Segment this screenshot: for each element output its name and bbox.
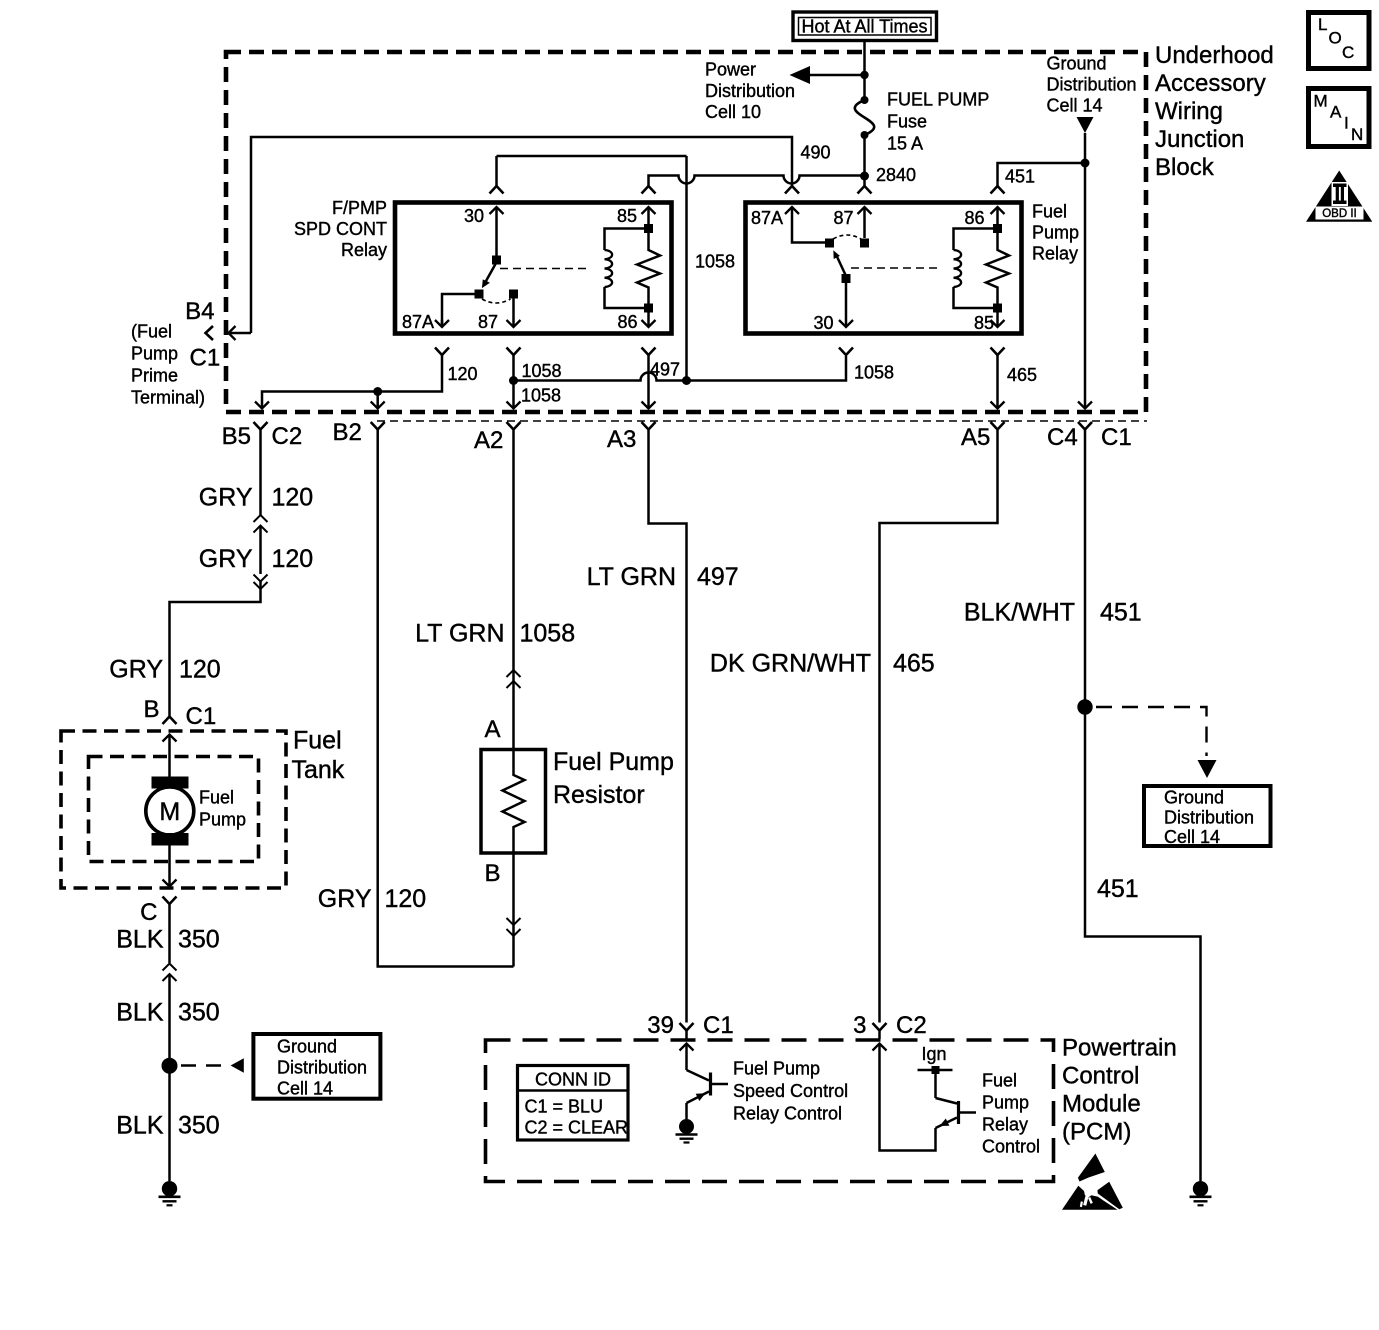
label: FUEL PUMP Fuse 15 A (887, 90, 989, 154)
relay K1 coil resistor (zigzag) (637, 233, 660, 305)
svg-text:Relay Control: Relay Control (733, 1104, 842, 1124)
module: Powertrain Control Module (PCM) dashed box (486, 1040, 1054, 1182)
transistor Q2: fuel pump relay driver (936, 1070, 977, 1128)
svg-text:Terminal): Terminal) (131, 388, 205, 408)
svg-text:497: 497 (650, 360, 680, 380)
svg-text:B2: B2 (333, 419, 362, 446)
svg-text:465: 465 (1007, 365, 1037, 385)
wire 350: middle segment (168, 974, 171, 1181)
svg-text:497: 497 (697, 563, 739, 591)
svg-text:N: N (1351, 125, 1363, 144)
wire: arrow to Power Distribution Cell 10 (790, 66, 865, 84)
label: Fuel Pump (motor) (199, 788, 246, 830)
svg-text:Fuse: Fuse (887, 112, 927, 132)
relay K2 coil resistor (zigzag) (986, 233, 1009, 305)
svg-text:Control: Control (982, 1137, 1040, 1157)
relay K2 pin 87 (top) (833, 207, 871, 238)
svg-text:B5: B5 (222, 423, 251, 450)
svg-text:LT GRN: LT GRN (587, 563, 676, 591)
svg-text:B4: B4 (185, 298, 214, 325)
terminal A3 fork (642, 422, 656, 430)
svg-text:3: 3 (853, 1012, 866, 1039)
svg-text:C4: C4 (1047, 424, 1078, 451)
node 2840: junction dot (860, 172, 869, 181)
relay K2 dashed actuation line to coil (851, 267, 937, 269)
svg-text:1058: 1058 (521, 386, 561, 406)
wire 451: junction block vertical to C4/C1 exit (1084, 163, 1087, 402)
label: Power Distribution Cell 10 (705, 60, 795, 123)
wire 490: node 2840 to relay K1 pin 85 with crossover hops (649, 176, 865, 187)
svg-text:GRY: GRY (199, 545, 253, 573)
svg-text:C: C (1342, 43, 1354, 62)
terminal B4: female fork (prime terminal) (206, 326, 214, 340)
label: LT GRN 497 (587, 563, 739, 591)
terminal B5/C2 fork (254, 422, 268, 430)
terminal B2 fork (371, 422, 385, 430)
svg-text:A: A (484, 716, 500, 743)
motor M1: fuel pump motor (146, 777, 194, 846)
ground G1: chassis ground at end of BLK 350 (159, 1181, 181, 1205)
svg-text:2840: 2840 (876, 165, 916, 185)
relay K1 switch arm (movable contact arrow) (482, 264, 496, 288)
relay K1 coil bottom node (square) (644, 304, 653, 313)
svg-text:Fuel: Fuel (293, 727, 342, 755)
svg-text:Relay: Relay (982, 1115, 1028, 1135)
svg-text:465: 465 (893, 650, 935, 678)
dashed reference line to Ground Distribution Cell 14 (right) (1096, 707, 1207, 756)
svg-text:(PCM): (PCM) (1062, 1119, 1131, 1146)
svg-text:1058: 1058 (520, 620, 576, 648)
relay K1 pin 30 (top) (464, 206, 504, 256)
wire 1058: relay K1 pin 30 top feed (497, 155, 687, 158)
svg-text:87: 87 (478, 312, 498, 332)
svg-text:85: 85 (974, 313, 994, 333)
svg-text:Accessory: Accessory (1155, 70, 1266, 97)
svg-text:Distribution: Distribution (277, 1058, 367, 1078)
svg-text:120: 120 (385, 885, 427, 913)
wire 451: branch to relay K2 pin 86 (998, 163, 1086, 186)
relay K1 dashed arc between contacts 87A and 87 (482, 299, 511, 303)
svg-text:Junction: Junction (1155, 126, 1244, 153)
svg-text:Pump: Pump (1032, 223, 1079, 243)
wire 1058: horizontal run from A2 to relay K2 pin 30 with hop over 497 (514, 356, 847, 381)
wire: B4 fuel pump prime feed (long top wire) (251, 137, 792, 333)
ground G2: chassis ground at end of 451 (1190, 1181, 1212, 1205)
svg-text:87A: 87A (402, 312, 434, 332)
wire: motor to tank bottom, arrow down (163, 846, 177, 887)
pin 86 connector fork at relay K2 (991, 186, 1005, 194)
relay K2 coil (inductor, parallel with resistor) (954, 229, 998, 309)
svg-text:120: 120 (179, 656, 221, 684)
svg-text:C2: C2 (896, 1012, 927, 1039)
relay K1 pin 86 (bottom) (617, 312, 655, 332)
wire: battery feed from Hot At All Times into junction block (863, 41, 866, 101)
relay K2 pin 85 (bottom) (974, 312, 1005, 333)
svg-text:86: 86 (617, 312, 637, 332)
relay K2 switch arm (movable contact arrow) (833, 250, 846, 276)
svg-text:Ign: Ign (921, 1044, 946, 1064)
svg-text:451: 451 (1005, 167, 1035, 187)
wire 497: relay K1 pin 86 to A3 exit (642, 348, 656, 409)
label box: Ground Distribution Cell 14 (right) (1144, 786, 1271, 847)
ground G3: PCM internal ground (Q1 emitter) (676, 1119, 698, 1143)
svg-text:490: 490 (801, 143, 831, 163)
label: Fuel Tank (292, 727, 345, 785)
svg-text:Cell 14: Cell 14 (1164, 827, 1220, 847)
wire 120: relay K1 pin 87A to exits B5 and B2 (255, 348, 449, 409)
node: junction dot to Power Distribution (860, 71, 868, 79)
wire 451: C1 exit down junction (1085, 430, 1201, 1182)
label: F/PMP SPD CONT Relay (294, 198, 387, 260)
svg-text:C: C (140, 899, 157, 926)
label: (Fuel Pump Prime Terminal) (131, 322, 205, 408)
node: ground-reference junction dot on BLK 350 (162, 1058, 178, 1074)
svg-text:DK GRN/WHT: DK GRN/WHT (710, 650, 871, 678)
wire: fuse to node 2840 (863, 135, 866, 186)
in-line connector chevrons (up) on LT GRN 1058 (507, 670, 521, 688)
wire 1058: A2 exit down to fuel pump resistor (512, 430, 515, 767)
svg-text:Powertrain: Powertrain (1062, 1035, 1177, 1062)
svg-text:I: I (1344, 114, 1349, 133)
in-line connector chevrons (up) on BLK 350 (163, 964, 177, 982)
svg-text:Fuel Pump: Fuel Pump (553, 748, 674, 776)
ESD sensitive device symbol (PCM) (1062, 1154, 1123, 1210)
svg-text:Ground: Ground (277, 1037, 337, 1057)
wire: PCM pin 3 entry arrow and loop to Q2 emitter (873, 1044, 936, 1151)
dashed reference arrow to Ground Distribution Cell 14 (left) (181, 1058, 244, 1073)
svg-text:C1: C1 (190, 345, 221, 372)
terminal B fork at fuel tank (163, 717, 177, 725)
relay K2 coil top node (square) (993, 224, 1002, 233)
wire 120: B5/C2 down to in-line connector (259, 430, 262, 516)
icon: OBD II triangle (1306, 171, 1372, 222)
ground reference triangle (right, Cell 14) (1198, 760, 1217, 778)
label: Fuel Pump Resistor (553, 748, 674, 809)
svg-text:Fuel: Fuel (982, 1071, 1017, 1091)
label: DK GRN/WHT 465 (710, 650, 935, 678)
label: Fuel Pump Speed Control Relay Control (733, 1059, 848, 1124)
svg-text:Resistor: Resistor (553, 781, 645, 809)
relay K1 pin 87 (bottom) (478, 290, 521, 333)
relay K1 coil top node (square) (644, 224, 653, 233)
label: GRY 120 (second) (199, 545, 313, 573)
resistor R1 element (zigzag) (503, 766, 525, 853)
svg-text:Relay: Relay (1032, 244, 1078, 264)
svg-text:LT GRN: LT GRN (415, 620, 504, 648)
relay K2 pin 87A (top) (751, 207, 825, 243)
svg-text:30: 30 (464, 206, 484, 226)
svg-text:120: 120 (272, 484, 314, 512)
svg-text:451: 451 (1100, 599, 1142, 627)
svg-text:SPD CONT: SPD CONT (294, 219, 387, 239)
icon: MAIN box (1309, 89, 1370, 147)
svg-text:Speed Control: Speed Control (733, 1081, 848, 1101)
label: Underhood Accessory Wiring Junction Block (1155, 42, 1274, 181)
label: BLK 350 (second) (116, 999, 219, 1027)
svg-text:(Fuel: (Fuel (131, 322, 172, 342)
relay K2 pin 86 (top) (964, 207, 1004, 228)
in-line connector chevrons (down) on resistor output (507, 918, 521, 936)
svg-text:86: 86 (964, 208, 984, 228)
wire 120: B2 exit down and over to fuel pump resistor output (378, 430, 514, 967)
svg-text:451: 451 (1097, 875, 1139, 903)
svg-text:C1: C1 (1101, 424, 1132, 451)
terminal B4: arrow into junction block (Fuel Pump Prime Terminal) (229, 326, 252, 340)
label: BLK 350 (third) (116, 1112, 219, 1140)
svg-text:Cell 14: Cell 14 (277, 1079, 333, 1099)
svg-text:A5: A5 (961, 424, 990, 451)
svg-text:A2: A2 (474, 427, 503, 454)
pin 87 connector fork at relay K2 (node 2840) (858, 186, 872, 194)
fuel tank inner dashed box (fuel pump module) (89, 757, 259, 862)
label: Fuel Pump Relay (1032, 202, 1079, 264)
svg-text:87A: 87A (751, 208, 783, 228)
label: BLK/WHT 451 (964, 599, 1142, 627)
svg-text:350: 350 (178, 926, 220, 954)
relay K1 switch common contact (square) (492, 256, 501, 265)
svg-text:120: 120 (272, 545, 314, 573)
svg-text:Cell 10: Cell 10 (705, 102, 761, 122)
wire: tank terminal arrow up into connector B (163, 735, 177, 777)
label: Fuel Pump Relay Control (982, 1071, 1040, 1157)
svg-text:Distribution: Distribution (1164, 808, 1254, 828)
node: 451 ground-reference junction dot (1077, 699, 1092, 714)
svg-text:BLK: BLK (116, 999, 164, 1027)
svg-text:GRY: GRY (109, 656, 163, 684)
svg-text:87: 87 (833, 208, 853, 228)
svg-text:Distribution: Distribution (1047, 75, 1137, 95)
svg-text:1058: 1058 (854, 363, 894, 383)
svg-text:BLK: BLK (116, 926, 164, 954)
wire 497: A3 exit down to PCM pin 39 (649, 430, 687, 1023)
svg-text:Prime: Prime (131, 366, 178, 386)
svg-text:120: 120 (448, 364, 478, 384)
svg-text:C1 = BLU: C1 = BLU (525, 1097, 604, 1117)
svg-text:85: 85 (617, 206, 637, 226)
wire 120: jog left down to fuel tank connector B (170, 582, 261, 717)
svg-text:C1: C1 (703, 1012, 734, 1039)
svg-text:1058: 1058 (522, 361, 562, 381)
wire 1058: vertical drop right of relay K1 (685, 156, 688, 381)
label: Powertrain Control Module (PCM) (1062, 1035, 1177, 1146)
resistor R1: Fuel Pump Resistor box (481, 750, 546, 854)
svg-text:39: 39 (647, 1012, 674, 1039)
svg-text:Ground: Ground (1164, 788, 1224, 808)
svg-text:350: 350 (178, 1112, 220, 1140)
terminal A5 fork (991, 422, 1005, 430)
svg-text:Relay: Relay (341, 240, 387, 260)
relay K1 pin 85 (top) (617, 206, 656, 226)
label: GRY 120 (B2 branch) (318, 885, 426, 913)
svg-text:FUEL PUMP: FUEL PUMP (887, 90, 989, 110)
wire 451: ground triangle down to node (1084, 133, 1087, 163)
pin 30 connector fork at relay K1 (490, 156, 504, 194)
svg-text:CONN ID: CONN ID (535, 1070, 611, 1090)
connector face dashed line (C2/A/C1 row) (377, 420, 1147, 422)
svg-text:Underhood: Underhood (1155, 42, 1274, 69)
svg-text:L: L (1318, 15, 1327, 34)
relay K1 coil (inductor, parallel with resistor) (605, 229, 649, 309)
svg-text:A3: A3 (607, 426, 636, 453)
svg-text:BLK: BLK (116, 1112, 164, 1140)
terminal C4/C1 fork (1078, 422, 1092, 430)
svg-text:C2 = CLEAR: C2 = CLEAR (525, 1118, 629, 1138)
junction block: Underhood Accessory Wiring Junction Block dashed border (226, 52, 1146, 412)
ground reference triangle (top, Cell 14) (1077, 117, 1094, 133)
icon: LOC box (1309, 13, 1370, 69)
svg-text:Pump: Pump (131, 344, 178, 364)
svg-text:Fuel: Fuel (1032, 202, 1067, 222)
node: 1058 junction dot at A2 (509, 376, 518, 385)
relay K2 switch common contact (square) (842, 274, 851, 283)
svg-text:B: B (143, 696, 159, 723)
terminal C fork below fuel tank (163, 897, 177, 964)
svg-text:Power: Power (705, 60, 756, 80)
svg-text:BLK/WHT: BLK/WHT (964, 599, 1075, 627)
svg-text:A: A (1330, 103, 1342, 122)
svg-text:Control: Control (1062, 1063, 1139, 1090)
label: GRY 120 (first) (199, 484, 313, 512)
svg-text:GRY: GRY (318, 885, 372, 913)
terminal 39/C1 fork at PCM (680, 1023, 694, 1031)
label box: Ground Distribution Cell 14 (left) (253, 1034, 380, 1099)
label: LT GRN 1058 (415, 620, 575, 648)
svg-text:B: B (484, 860, 500, 887)
svg-text:Module: Module (1062, 1091, 1141, 1118)
node: Ign feed bar and square (Q2 collector) (918, 1066, 953, 1074)
relay K1: F/PMP SPD CONT Relay box (395, 203, 672, 334)
label: Ground Distribution Cell 14 (top) (1047, 54, 1137, 116)
svg-text:Pump: Pump (982, 1093, 1029, 1113)
svg-text:Cell 14: Cell 14 (1047, 96, 1103, 116)
relay K2 contact 87A (square) (825, 239, 834, 248)
node: 451 junction dot at top (1081, 159, 1090, 168)
wire 120: resistor output down to B2 run (512, 853, 515, 967)
svg-text:Distribution: Distribution (705, 81, 795, 101)
relay K1 dashed actuation line to coil (500, 268, 588, 270)
svg-text:Block: Block (1155, 154, 1215, 181)
relay K2 coil bottom node (square) (993, 304, 1002, 313)
transistor Q1: fuel pump speed control relay driver (687, 1070, 729, 1119)
wire 451: arrow through border at C4/C1 (1078, 402, 1092, 409)
relay K2: Fuel Pump Relay box (746, 203, 1022, 334)
svg-text:O: O (1329, 29, 1342, 48)
svg-text:15 A: 15 A (887, 134, 923, 154)
connector id table: CONN ID box (518, 1066, 629, 1141)
relay K2 pin 30 wire and arrow (bottom) (813, 283, 853, 333)
node: 1058 junction dot at 1058 vertical (682, 376, 691, 385)
terminal A2 fork (507, 422, 521, 430)
terminal 3/C2 fork at PCM (873, 1023, 887, 1031)
relay K2 contact 87 (square) (860, 239, 869, 248)
power label: Hot At All Times box (793, 12, 937, 41)
wire: B2 branch arrow through border (371, 392, 385, 409)
svg-text:C2: C2 (272, 423, 303, 450)
svg-text:GRY: GRY (199, 484, 253, 512)
svg-text:30: 30 (813, 313, 833, 333)
wire 465: relay K2 pin 85 to A5 exit (991, 348, 1005, 409)
svg-text:F/PMP: F/PMP (332, 198, 387, 218)
svg-text:M: M (1314, 92, 1328, 111)
svg-text:Ground: Ground (1047, 54, 1107, 74)
svg-text:Pump: Pump (199, 810, 246, 830)
relay K1 contact 87A (square) (475, 290, 484, 299)
wire 465: A5 exit down to PCM pin 3 (880, 430, 998, 1023)
relay K1 pin 87A wire and arrow (bottom) (402, 294, 479, 332)
label: BLK 350 (first) (116, 926, 219, 954)
svg-text:350: 350 (178, 999, 220, 1027)
wire: PCM pin 39 entry arrow (680, 1044, 694, 1071)
svg-text:1058: 1058 (695, 252, 735, 272)
svg-text:Tank: Tank (292, 756, 345, 784)
svg-text:Hot At All Times: Hot At All Times (801, 17, 927, 37)
svg-text:Fuel Pump: Fuel Pump (733, 1059, 820, 1079)
svg-text:C1: C1 (186, 703, 217, 730)
pin 87A connector fork at relay K2 (785, 186, 799, 194)
fuse F1: FUEL PUMP Fuse 15 A (855, 96, 874, 139)
pin 30 fork below relay K2 (839, 348, 853, 356)
node: 120/B2 junction dot (373, 387, 382, 396)
svg-text:OBD II: OBD II (1322, 208, 1357, 220)
fuel tank outer dashed box (61, 731, 286, 888)
pin 85 connector fork at relay K1 (642, 186, 656, 194)
svg-text:Fuel: Fuel (199, 788, 234, 808)
in-line connector chevrons (up) on GRY 120 (254, 515, 268, 533)
svg-text:M: M (159, 798, 180, 826)
in-line connector chevrons (down) on GRY 120 (254, 575, 268, 590)
svg-text:Wiring: Wiring (1155, 98, 1223, 125)
relay K2 dashed arc between contacts 87A and 87 (833, 235, 861, 239)
wire 120: second GRY segment (259, 526, 262, 575)
label: GRY 120 (third) (109, 656, 220, 684)
wire 1058: relay K1 pin 87 down to A2 exit (507, 348, 521, 409)
